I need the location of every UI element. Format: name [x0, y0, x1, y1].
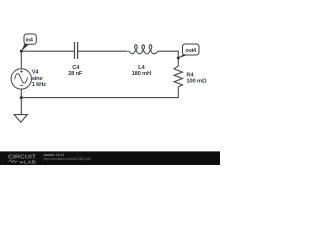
svg-text:C4: C4 — [72, 65, 80, 71]
wire L4 to top-right corner and down to R4 — [160, 51, 178, 66]
svg-text:out4: out4 — [185, 48, 196, 54]
svg-text:in4: in4 — [25, 37, 32, 43]
voltage source V4 plus sign — [20, 70, 23, 73]
svg-text:▸LAB: ▸LAB — [19, 159, 37, 164]
ground symbol — [14, 115, 27, 123]
wire C4 right plate to L4 — [78, 50, 128, 52]
svg-text:100 mΩ: 100 mΩ — [186, 78, 206, 84]
svg-text:sine: sine — [32, 76, 44, 82]
inductor L4 coil — [128, 45, 160, 54]
flag in4 box — [24, 34, 36, 44]
flag in4 pointer wedge — [21, 44, 29, 52]
svg-text:28 nF: 28 nF — [68, 71, 83, 77]
voltage source V4 minus sign — [20, 85, 23, 87]
wire in4 node down to V4 source top — [20, 51, 22, 69]
wire V4 source bottom to bottom rail junction and ground — [20, 89, 22, 115]
svg-text:R4: R4 — [186, 72, 194, 78]
node in4 junction dot — [20, 50, 23, 53]
wire R4 bottom to bottom rail and back to source — [21, 87, 178, 98]
wire top-left horizontal (in4 node to C4 left plate) — [21, 50, 74, 52]
svg-text:1 kHz: 1 kHz — [32, 82, 46, 88]
flag out4 box — [183, 44, 200, 55]
footer logo resistor squiggle — [8, 160, 19, 163]
node bottom-left junction dot — [20, 96, 23, 99]
node out4 junction dot — [177, 56, 180, 59]
svg-text:V4: V4 — [32, 70, 40, 76]
svg-text:http://circuitlab.com/c6c7e887: http://circuitlab.com/c6c7e887pu5/ — [44, 157, 92, 161]
voltage source V4 circle — [11, 69, 31, 89]
svg-text:180 mH: 180 mH — [132, 71, 151, 77]
resistor R4 zigzag — [174, 66, 182, 87]
flag out4 pointer wedge — [178, 54, 187, 58]
footer black bar — [0, 151, 220, 165]
capacitor C4 right plate — [77, 42, 79, 59]
voltage source V4 sine wave — [15, 74, 28, 84]
svg-text:L4: L4 — [138, 65, 145, 71]
capacitor C4 left plate — [74, 42, 76, 59]
